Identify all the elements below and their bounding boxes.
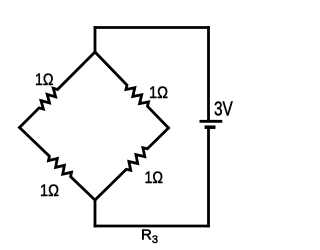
resistor top-right, value 1 ohm bbox=[95, 52, 169, 128]
wire top horizontal bbox=[95, 26, 209, 29]
wire right lower bbox=[207, 127, 210, 226]
wire top riser bbox=[94, 28, 97, 53]
wire right upper bbox=[207, 28, 210, 122]
svg-text:R3: R3 bbox=[141, 227, 158, 247]
svg-text:1Ω: 1Ω bbox=[35, 71, 54, 89]
svg-text:1Ω: 1Ω bbox=[145, 169, 164, 187]
resistor top-left, value 1 ohm bbox=[20, 52, 96, 128]
wire bottom riser bbox=[94, 200, 97, 226]
battery 3V negative (short) plate bbox=[205, 125, 216, 129]
resistor bottom-left, value 1 ohm bbox=[20, 128, 96, 201]
resistor bottom-right, value 1 ohm bbox=[95, 128, 169, 200]
svg-text:3V: 3V bbox=[214, 99, 233, 121]
wire bottom horizontal bbox=[95, 225, 209, 228]
svg-text:1Ω: 1Ω bbox=[40, 182, 59, 200]
svg-text:1Ω: 1Ω bbox=[149, 84, 168, 102]
battery 3V positive (long) plate bbox=[200, 120, 223, 123]
